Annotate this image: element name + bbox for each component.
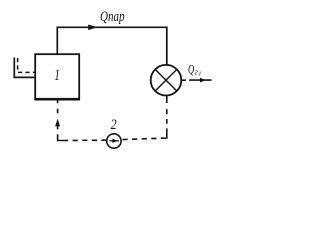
heat exchanger U: [151, 65, 182, 96]
return line right corner (dashed): [161, 133, 167, 139]
outlet arrow line: [189, 78, 211, 83]
pump internal arrow: [109, 139, 119, 143]
arrowhead on steam line: [88, 25, 97, 31]
return line left vertical (dashed): [57, 99, 59, 129]
outlet stub: [182, 79, 186, 81]
fuel inlet hook (solid): [14, 58, 35, 78]
label Q г1: [188, 61, 201, 77]
pump circle 2: [107, 134, 121, 148]
return line bottom left segment (dashed): [62, 139, 107, 141]
fuel inlet hook (dashed): [18, 58, 36, 72]
boiler box 1: [34, 54, 80, 99]
svg-text:1: 1: [198, 71, 201, 78]
steam line (box top to exchanger): [57, 27, 167, 65]
return line bottom right segment (dashed): [121, 138, 156, 139]
svg-text:2: 2: [111, 117, 117, 133]
up arrowhead on return: [55, 119, 60, 127]
svg-text:Qпар: Qпар: [100, 9, 125, 25]
return line right vertical (dashed): [166, 96, 168, 133]
return line left corner (dashed): [58, 134, 63, 140]
svg-text:1: 1: [54, 67, 60, 84]
